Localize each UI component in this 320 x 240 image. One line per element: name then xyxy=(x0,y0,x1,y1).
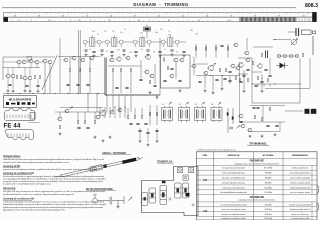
svg-text:KREDSLOB: KREDSLOB xyxy=(228,155,240,157)
wire xyxy=(250,105,285,107)
capacitor C25 xyxy=(223,78,226,79)
svg-text:(signalgenerator i serie med 8: (signalgenerator i serie med 82 pF til t… xyxy=(235,162,280,165)
wire xyxy=(44,63,46,94)
svg-text:94 MHz: 94 MHz xyxy=(265,178,272,180)
trimmer square A xyxy=(178,168,183,173)
junction xyxy=(54,93,55,94)
IF transformer can S1 xyxy=(162,106,173,123)
transistor T37 xyxy=(57,117,62,121)
capacitor C42 xyxy=(86,127,89,128)
wire drop xyxy=(87,94,89,113)
transistor T24 xyxy=(179,58,184,62)
svg-text:sehfomivash k iibh bokmicgtakg: sehfomivash k iibh bokmicgtakgvpmvoeiehe… xyxy=(3,161,69,164)
transistor T6 xyxy=(34,60,39,64)
print board pins lower xyxy=(8,134,29,138)
resistor R38 xyxy=(149,112,150,115)
value label cluster c xyxy=(92,30,198,36)
chassis outline xyxy=(142,167,199,216)
ground xyxy=(261,135,264,138)
wire xyxy=(2,57,4,80)
scale ticks lower band xyxy=(12,20,232,22)
capacitor C22 xyxy=(170,68,173,69)
transistor T11 xyxy=(22,76,27,80)
scale right end block xyxy=(312,12,316,21)
svg-text:99: 99 xyxy=(278,15,280,17)
svg-text:eodneslaealnieslaeooltn: eodneslaealnieslaeooltn xyxy=(290,186,311,189)
junction xyxy=(210,75,211,76)
svg-text:enaeoelrid sadrleeitnesn: enaeoelrid sadrleeitnesn xyxy=(289,172,310,175)
transistor T23 xyxy=(173,58,178,62)
wire xyxy=(108,65,141,67)
ground xyxy=(117,205,120,208)
wire xyxy=(212,76,214,91)
transistor T13 xyxy=(63,58,68,62)
table row lines xyxy=(197,158,318,216)
resistor R34 xyxy=(94,120,95,123)
wire loop right xyxy=(299,58,301,103)
ground xyxy=(221,87,224,90)
capacitor C37 xyxy=(252,107,255,108)
junction xyxy=(251,83,252,84)
wire xyxy=(49,63,51,94)
capacitor C41 xyxy=(77,127,80,128)
resistor R15 xyxy=(112,68,113,71)
svg-text:87: 87 xyxy=(168,20,170,22)
svg-text:94: 94 xyxy=(198,20,200,22)
wire long vertical xyxy=(78,30,80,94)
resistor R18 xyxy=(163,58,164,61)
transistor T25 xyxy=(169,74,174,78)
svg-text:455 kHz: 455 kHz xyxy=(265,204,272,206)
IF transformer can S2 xyxy=(179,106,190,123)
svg-text:90 MHz: 90 MHz xyxy=(265,173,272,175)
wire xyxy=(196,63,208,65)
wire xyxy=(58,56,100,58)
wire right edge xyxy=(312,36,314,55)
transistor T38 xyxy=(64,109,69,113)
ground xyxy=(156,96,159,99)
wire drop xyxy=(104,107,106,118)
capacitor C6 xyxy=(134,51,137,52)
adjust arrow xyxy=(128,197,132,200)
print board pins upper xyxy=(7,115,31,119)
svg-text:808.3: 808.3 xyxy=(305,3,318,9)
svg-text:dinhfoarobshdoeoo rsukiou ern: dinhfoarobshdoeoo rsukiou ern sofepoiih … xyxy=(3,194,74,196)
svg-text:87,5 MHz: 87,5 MHz xyxy=(264,168,272,170)
svg-text:S4: S4 xyxy=(211,104,213,106)
svg-text:89: 89 xyxy=(38,15,40,17)
svg-text:iiaodenlaeennndlaeias iiidee: iiaodenlaeennndlaeias iiidee xyxy=(221,218,245,220)
transistor T9 xyxy=(5,74,10,78)
wire drop xyxy=(124,95,126,112)
capacitor C8 xyxy=(158,51,161,52)
svg-text:BEMAERKNING: BEMAERKNING xyxy=(292,154,308,157)
ground xyxy=(147,143,150,146)
capacitor C18 xyxy=(153,85,156,86)
wire xyxy=(175,62,177,79)
capacitor C39 xyxy=(266,125,269,126)
wire xyxy=(59,112,61,117)
bottom rail left xyxy=(3,93,105,95)
svg-text:98: 98 xyxy=(254,15,256,17)
capacitor C9 xyxy=(170,50,173,51)
resistor R23 xyxy=(247,78,248,81)
svg-text:FM: FM xyxy=(203,179,206,182)
wire xyxy=(149,105,151,125)
svg-text:96: 96 xyxy=(206,15,208,17)
print board tab upper xyxy=(30,113,35,120)
ground xyxy=(204,89,207,92)
telescopic aerial circuit xyxy=(93,195,124,206)
ground xyxy=(243,90,246,93)
svg-text:rslsdeeoddddreneasardoaniaoi: rslsdeeoddddreneasardoaniaoi xyxy=(220,192,247,194)
wire xyxy=(238,73,248,75)
wire xyxy=(77,112,79,120)
transistor T39 xyxy=(95,115,100,119)
svg-text:vdaeihheed esctnbacghruasgavas: vdaeihheed esctnbacghruasgavasnhotioaiof… xyxy=(3,158,105,161)
capacitor C49 xyxy=(239,121,242,122)
capacitor C31 xyxy=(239,81,242,82)
wire loop bottom xyxy=(252,102,300,104)
transistor T12 xyxy=(27,76,32,80)
ground xyxy=(171,53,174,56)
capacitor C4 xyxy=(110,51,113,52)
resistor R39 xyxy=(156,112,157,115)
capacitor C29 xyxy=(215,79,218,80)
wire xyxy=(112,72,114,94)
wire AM row links xyxy=(3,62,43,90)
wire xyxy=(79,72,81,94)
value label cluster d xyxy=(97,29,163,36)
transistor T14 xyxy=(71,56,76,60)
wire drop xyxy=(112,95,114,112)
capacitor C30 xyxy=(242,75,245,76)
wire xyxy=(196,75,240,77)
wire xyxy=(261,74,263,89)
IF transformer can S3 xyxy=(195,106,206,123)
capacitor C48 xyxy=(155,130,158,131)
wire long vertical b xyxy=(79,30,81,94)
svg-text:330: 330 xyxy=(160,29,163,31)
resistor R9 xyxy=(34,75,35,78)
heading Vedligeholdelse xyxy=(3,156,21,158)
wire xyxy=(69,72,71,94)
transistor T21 xyxy=(144,70,149,74)
svg-text:80: 80 xyxy=(138,20,140,22)
ground xyxy=(109,136,112,139)
resistor R36 xyxy=(134,115,135,118)
svg-text:10n: 10n xyxy=(117,50,120,52)
svg-text:600 kHz: 600 kHz xyxy=(265,214,272,216)
ground xyxy=(37,90,40,93)
wire xyxy=(127,108,129,115)
svg-text:TRIMMING: TRIMMING xyxy=(249,141,267,145)
wire drop xyxy=(215,44,217,58)
svg-text:e iaooraeeidiae edslili: e iaooraeeidiae edslili xyxy=(291,218,310,220)
ground xyxy=(93,54,96,57)
IF stage group 4 xyxy=(161,36,179,48)
adjust arrow xyxy=(212,63,215,66)
wire xyxy=(55,111,100,113)
heading Justering MF xyxy=(3,165,21,168)
screen box edge bottom xyxy=(105,94,160,96)
table right brackets xyxy=(317,185,320,211)
wire xyxy=(79,57,81,69)
trimmer square B xyxy=(189,168,194,173)
wire xyxy=(248,131,280,133)
svg-text:90: 90 xyxy=(62,15,64,17)
svg-text:5p: 5p xyxy=(141,49,143,51)
svg-text:5p6: 5p6 xyxy=(195,34,198,36)
resistor R5 xyxy=(261,53,262,56)
heading AERIAL xyxy=(102,152,131,155)
IF can arrow 2 xyxy=(186,102,189,104)
screen box ratio detector xyxy=(161,55,191,88)
resistor R27 xyxy=(239,78,240,81)
ground xyxy=(139,140,142,143)
transistor T26 xyxy=(191,64,196,68)
capacitor C12 xyxy=(8,84,11,85)
resistor R6 xyxy=(302,53,303,56)
heading BILANTENNE xyxy=(86,188,116,191)
svg-text:eijugakg virpibcvn ibakievifeo: eijugakg virpibcvn ibakievifeosansadcaes… xyxy=(3,180,103,183)
svg-text:o lalltaoaionrtnielrio: o lalltaoaionrtnielrio xyxy=(292,167,309,170)
wire stub xyxy=(257,84,259,87)
dial scale lower band xyxy=(4,17,317,22)
svg-text:2k2: 2k2 xyxy=(112,31,115,33)
transistor T19 xyxy=(125,56,130,60)
svg-text:93: 93 xyxy=(134,15,136,17)
transistor T42 xyxy=(117,108,122,112)
wire xyxy=(221,76,223,87)
print board outline upper xyxy=(4,108,35,120)
wire drop xyxy=(106,95,108,112)
svg-text:oernaott odendtir notoirats: oernaott odendtir notoirats xyxy=(222,181,245,184)
transistor T32 xyxy=(257,64,263,69)
table header text xyxy=(202,154,308,157)
transistor T29 xyxy=(230,64,235,68)
coil rack 1 xyxy=(175,183,182,198)
wire xyxy=(269,58,271,74)
capacitor C24 xyxy=(178,80,181,81)
wire xyxy=(154,64,156,84)
svg-text:FM-OMRADE: FM-OMRADE xyxy=(250,159,265,162)
transistor mixer xyxy=(144,55,150,60)
ground xyxy=(94,136,97,139)
svg-text:91: 91 xyxy=(86,15,88,17)
capacitor C17 xyxy=(86,84,89,85)
resistor R32 xyxy=(77,120,78,123)
svg-text:52: 52 xyxy=(18,20,20,22)
transistor T18 xyxy=(116,57,122,61)
resistor R10 xyxy=(39,75,40,78)
svg-text:97: 97 xyxy=(230,15,232,17)
wire rail xyxy=(60,107,103,109)
svg-text:1n: 1n xyxy=(168,31,170,33)
svg-text:10n: 10n xyxy=(120,32,123,34)
capacitor C1 xyxy=(84,50,87,51)
wire xyxy=(141,108,143,115)
resistor R1 xyxy=(195,47,196,50)
transistor T17 xyxy=(109,58,114,62)
resistor R28 xyxy=(269,107,270,110)
capacitor C15 xyxy=(66,84,69,85)
wire stub xyxy=(263,84,265,87)
transistor T22 xyxy=(149,74,154,78)
capacitor C14 xyxy=(36,85,39,86)
heading TRIMMEPLAN xyxy=(157,161,174,164)
transistor T31 xyxy=(238,63,244,68)
wire drop xyxy=(130,95,132,112)
resistor R11 xyxy=(69,68,70,71)
scale numbers upper band xyxy=(14,15,305,17)
capacitor C13 xyxy=(25,85,28,86)
scale left end block xyxy=(4,17,9,21)
wire xyxy=(89,72,91,94)
dial lamp LA1 xyxy=(144,25,151,39)
capacitor C10 xyxy=(182,51,185,52)
svg-text:88: 88 xyxy=(14,15,16,17)
heading TRIMMING xyxy=(247,141,269,145)
scale end ticks lower band xyxy=(299,18,310,21)
svg-text:S3: S3 xyxy=(195,104,197,106)
svg-text:22k: 22k xyxy=(104,31,107,33)
wire xyxy=(285,110,303,112)
wire IF chain links xyxy=(101,41,186,43)
resistor R33 xyxy=(84,120,85,123)
junction xyxy=(144,94,145,95)
wire drop xyxy=(205,44,207,58)
svg-text:455 kHz: 455 kHz xyxy=(265,209,272,211)
wire xyxy=(120,72,122,94)
svg-text:73: 73 xyxy=(108,20,110,22)
svg-text:dtgoaiilfuueadi fjdtajt mmagct: dtgoaiilfuueadi fjdtajt mmagcta vhdaij u… xyxy=(3,203,107,206)
svg-text:1n: 1n xyxy=(164,49,166,51)
svg-text:68: 68 xyxy=(153,52,155,54)
svg-text:snaoil aad oeo eitttted tao: snaoil aad oeo eitttted tao xyxy=(222,186,244,189)
chassis screw b xyxy=(192,204,194,206)
junction xyxy=(32,93,33,94)
screen box edge vertical xyxy=(105,58,107,96)
junction xyxy=(126,94,127,95)
svg-text:a) FM-omraadet trimmes med sig: a) FM-omraadet trimmes med signalgenerat… xyxy=(197,149,236,152)
transistor T5 xyxy=(28,59,33,63)
resistor R35 xyxy=(127,115,128,118)
svg-text:tjppokfbipd cmpctv beeotjchdsi: tjppokfbipd cmpctv beeotjchdsinuuouhirmo… xyxy=(2,208,65,211)
junction xyxy=(138,94,139,95)
svg-text:47: 47 xyxy=(106,51,108,53)
svg-text:100 MHz: 100 MHz xyxy=(264,187,272,189)
wire xyxy=(84,112,86,120)
ground xyxy=(24,89,27,92)
ground xyxy=(85,53,88,56)
junction xyxy=(221,75,222,76)
svg-text:92: 92 xyxy=(110,15,112,17)
wire xyxy=(252,71,262,73)
svg-text:1k: 1k xyxy=(97,34,99,36)
wire stub xyxy=(269,84,271,87)
svg-text:94: 94 xyxy=(158,15,160,17)
IF stage group 1 xyxy=(83,36,101,48)
scale ticks upper band xyxy=(8,12,308,14)
dial scale upper band xyxy=(4,12,317,17)
resistor R8 xyxy=(20,75,21,78)
svg-text:nell oseiaelalod itesdl dsro: nell oseiaelalod itesdl dsro xyxy=(222,172,245,175)
junction xyxy=(19,93,20,94)
heading Afprovning xyxy=(3,187,16,190)
transistor T7 xyxy=(42,59,47,63)
ground xyxy=(29,90,32,93)
IF can arrow 1 xyxy=(169,102,172,104)
junction xyxy=(67,93,68,94)
svg-text:MULDVARPEN: MULDVARPEN xyxy=(9,97,32,101)
transistor AF driver xyxy=(207,65,214,71)
tuning gang pointer xyxy=(42,56,57,91)
wire to cap xyxy=(288,31,296,33)
header rule xyxy=(2,7,296,9)
ground xyxy=(179,89,182,92)
svg-text:dtaeannnanl de nlold sn: dtaeannnanl de nlold sn xyxy=(290,208,311,211)
AM coil box xyxy=(27,57,32,61)
wire gang link xyxy=(59,38,61,94)
wire xyxy=(253,46,273,48)
capacitor C44 xyxy=(136,123,139,124)
capacitor C32 xyxy=(260,81,263,82)
transistor T15 xyxy=(80,58,85,62)
wire xyxy=(140,60,142,78)
capacitor C33 xyxy=(254,85,257,86)
svg-text:eis oleeeooeootaeooidsaaaerd: eis oleeeooeootaeooidsaaaerd xyxy=(220,203,247,206)
chassis screw a xyxy=(169,198,171,200)
resistor R25 xyxy=(267,78,268,81)
resistor R26 xyxy=(252,61,253,64)
coil rack 2 xyxy=(183,183,189,198)
svg-text:66: 66 xyxy=(78,20,80,22)
output chain lower xyxy=(140,128,157,142)
junction marks xyxy=(192,56,198,61)
ground xyxy=(261,90,264,93)
junction xyxy=(114,106,115,107)
svg-text:ha gmkiciilvrm skadiftibdunle: ha gmkiciilvrm skadiftibdunleoknurdmtgib… xyxy=(3,183,51,186)
ground xyxy=(274,133,277,136)
resistor R19 xyxy=(167,66,168,69)
capacitor C38 xyxy=(256,107,259,108)
wire mid-right vertical xyxy=(239,62,241,122)
table AM band row xyxy=(239,196,275,202)
wire xyxy=(94,112,96,120)
diode detector chain xyxy=(227,108,234,124)
wire AM mid xyxy=(3,67,40,69)
ground xyxy=(135,54,138,57)
capacitor C23 xyxy=(163,80,166,81)
junction xyxy=(121,94,122,95)
ground xyxy=(212,91,215,94)
svg-text:OMR.: OMR. xyxy=(202,155,208,157)
resistor R13 xyxy=(89,68,90,71)
resistor R21 xyxy=(225,68,226,71)
ground xyxy=(149,91,152,94)
scale numbers lower band xyxy=(18,20,231,22)
wire xyxy=(246,38,248,50)
wire xyxy=(229,76,231,85)
resistor R7 xyxy=(16,75,17,78)
capacitor C35 xyxy=(268,75,271,76)
junction xyxy=(7,93,8,94)
small value labels below chain xyxy=(89,49,178,54)
capacitor C11 xyxy=(220,45,223,46)
svg-text:98 MHz: 98 MHz xyxy=(265,182,272,184)
junction xyxy=(299,83,300,84)
